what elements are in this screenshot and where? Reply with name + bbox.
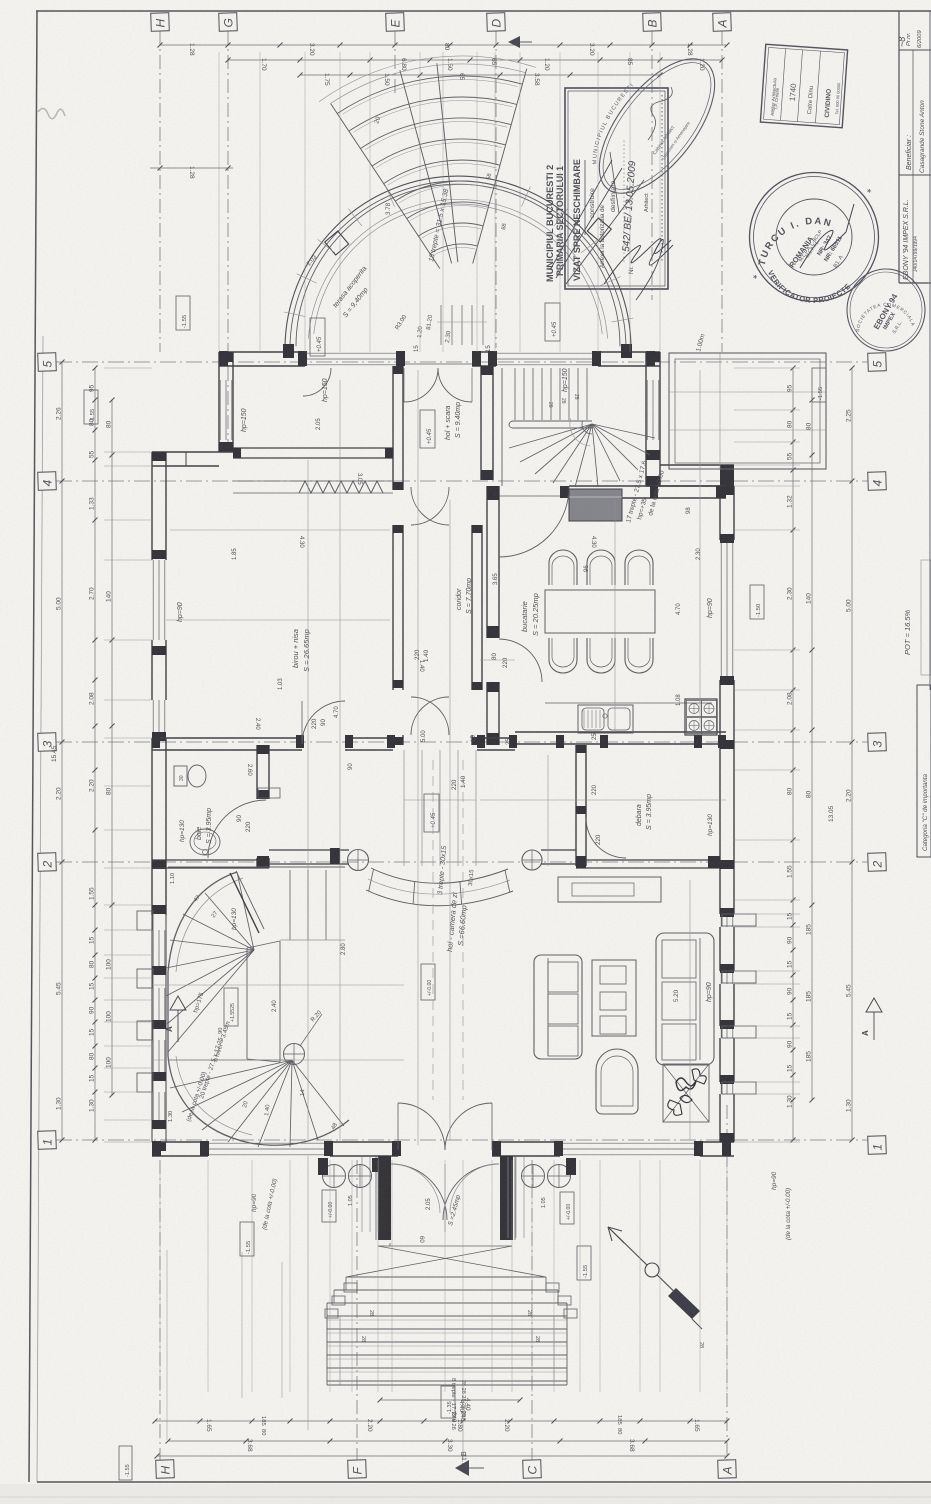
axis marker C bottom: [523, 1460, 542, 1479]
label hp=90 porch right: [771, 1171, 792, 1240]
dimension chain left mid: [89, 366, 98, 1143]
spiral stair labels: [168, 873, 339, 1131]
door coridor upper double: [411, 487, 449, 662]
axis marker A bottom: [718, 1460, 737, 1479]
sheet bottom paper edge: [0, 1496, 931, 1498]
stamp signature scribble: [604, 238, 673, 300]
axis marker 3 left: [38, 733, 57, 752]
spiral stair left: [166, 867, 349, 1147]
axis marker F bottom: [348, 1460, 367, 1479]
axis marker A top: [713, 13, 732, 32]
door coridor lower double: [411, 697, 467, 790]
step columns circles: [348, 850, 369, 871]
dimension chain right inner: [787, 366, 796, 1143]
section marker A left: [165, 996, 186, 1042]
exterior right wall: [720, 486, 734, 1142]
axis marker D top: [487, 13, 506, 32]
dining chairs bottom row: [549, 638, 653, 673]
axis marker 1 right: [868, 1136, 887, 1155]
exterior left step wall: [152, 452, 233, 466]
svg-text:1.05: 1.05: [541, 1197, 547, 1208]
dim line below plan left: [307, 1156, 309, 1430]
terasa acoperita label: [332, 265, 370, 319]
left wall window sills: [137, 911, 153, 1092]
pot box faint: [921, 560, 931, 675]
axis marker 5 left: [38, 353, 57, 372]
witness extension lines top: [219, 52, 660, 352]
sofa large: [656, 933, 714, 1065]
axis marker 2 right: [868, 853, 887, 872]
right edge title line: [929, 11, 931, 690]
interior wall between birou and coridor: [393, 366, 403, 745]
grid axis vertical dash lines: [160, 31, 727, 1460]
exterior left wall: [152, 452, 166, 1151]
axis marker 5 right: [868, 353, 887, 372]
section marker A right: [861, 998, 882, 1040]
dimension chain bottom row3 total: [155, 1454, 730, 1471]
label coridor: [456, 578, 473, 614]
terrace pillar right: [587, 218, 611, 242]
exterior right upper wall: [646, 352, 660, 486]
baie walls: [152, 745, 280, 868]
sheet frame top line: [36, 10, 931, 12]
title block texts: [897, 29, 926, 280]
porch side wall right: [500, 1156, 515, 1240]
boxed label -1.55: [240, 1222, 254, 1256]
exterior top wall: [219, 351, 660, 366]
baie toilet: [174, 765, 206, 787]
main entrance double door: [398, 1103, 492, 1150]
fan stair labels: [373, 115, 508, 343]
porch columns right pair: [522, 1158, 577, 1188]
title block border: [899, 11, 931, 283]
axis marker 4 right: [868, 472, 887, 491]
kitchen stove: [685, 699, 717, 735]
pencil squiggle top-left: [38, 108, 65, 118]
label hp=90 bottom-left + cota: [251, 1178, 279, 1230]
stamp oval municipiul: [578, 40, 736, 213]
door debara: [586, 818, 626, 858]
dimension chain bottom row entrance: [378, 1398, 523, 1422]
section marker B bottom: [455, 1451, 484, 1476]
arc radius labels: [306, 254, 434, 338]
kitchen counter dark cabinet: [569, 489, 622, 521]
stair winder treads: [509, 424, 592, 448]
north arrow: [608, 1227, 702, 1329]
axis marker G top: [219, 13, 238, 32]
label boie: [179, 808, 213, 844]
boxed label -1.50: [750, 585, 764, 619]
sofa small: [534, 955, 582, 1059]
baie washbasin: [190, 829, 220, 855]
dim segment top-left 1.28: [150, 166, 233, 180]
boxed +0.45 right terrace: [545, 303, 560, 341]
entrance landing cross: [346, 1243, 546, 1277]
plant box: [663, 1064, 709, 1122]
curved 3 steps living: [269, 848, 576, 906]
wall under hp150 room with insulation: [233, 448, 393, 493]
stamp round EBONY 94: [847, 269, 925, 351]
boxed label -1.55: [176, 296, 190, 330]
kitchen sink: [545, 703, 712, 733]
door kitchen lower left: [491, 639, 542, 682]
boxed +/-0.00 porch left: [322, 1190, 336, 1222]
porch flank lines right: [508, 1157, 524, 1238]
armchair: [596, 1049, 638, 1114]
witness extension lines right: [734, 368, 800, 1142]
fan apex door landing lines: [437, 305, 487, 345]
stair 17 trepte top right: [502, 368, 655, 487]
right side terrace: [669, 353, 826, 469]
terrace arc radial ticks: [284, 186, 633, 322]
label debara: [636, 794, 714, 836]
label hol+scara: [445, 402, 462, 440]
stamp round TURCU I DAN: [750, 173, 879, 306]
boxed label -1.55: [812, 368, 826, 402]
bottom-left vertical guide lines: [167, 1250, 282, 1440]
dining chairs top row: [549, 550, 653, 585]
porch side wall left: [376, 1156, 391, 1240]
grid axis horizontal dash lines: [56, 362, 868, 1140]
interior wall coridor right: [472, 366, 493, 745]
kitchen top wall: [499, 486, 726, 498]
stamp strike lines: [550, 160, 612, 270]
stamp rect MUNICIPIUL BUCURESTI: [545, 88, 668, 289]
boxed +0.45 hol scara: [420, 410, 435, 448]
terrace pillar left: [325, 231, 349, 255]
axis line below porch to B marker: [462, 1385, 464, 1460]
sheet frame left inner line: [37, 336, 43, 1482]
porch columns left pair: [318, 1158, 378, 1188]
stamp small rect top-right: [760, 44, 847, 128]
witness extension lines bottom: [160, 1160, 727, 1392]
scan noise overlay: [0, 0, 1, 1]
axis marker 3 right: [868, 733, 887, 752]
sheet frame bottom line: [37, 1481, 931, 1483]
door french top terrace: [404, 368, 472, 402]
boxed +/-0.00 porch right: [560, 1192, 574, 1224]
door top-left room: [303, 368, 331, 396]
dimension chain right outer: [846, 366, 855, 1143]
living sideboard: [558, 877, 661, 902]
axis marker 1 left: [38, 1131, 57, 1150]
terrace arcs: [285, 176, 631, 349]
interior guide lines: [152, 370, 726, 1145]
porch flank lines left: [362, 1157, 378, 1232]
dimension chain left outer: [51, 360, 65, 1143]
label bucatarie: [520, 593, 540, 636]
entrance steps: [325, 1277, 704, 1430]
boxed -1.55 bottom left corner: [119, 1446, 132, 1480]
boxed label +/-0.00 living: [421, 964, 435, 1000]
dimension chain right mid: [806, 398, 836, 1103]
faint scan smudge band bottom: [0, 1484, 931, 1504]
door baie: [208, 800, 266, 858]
boxed label +1.5525: [224, 988, 238, 1026]
debara walls: [576, 745, 720, 868]
axis marker H bottom: [156, 1460, 175, 1479]
categoria box: [917, 685, 931, 857]
axis marker H top: [151, 13, 170, 32]
stair handrail: [513, 420, 592, 422]
witness extension lines left: [104, 368, 152, 1142]
wall stub right of steps: [541, 849, 576, 851]
door birou (middle wall): [302, 701, 345, 744]
axis marker B top: [643, 13, 662, 32]
axis marker 4 left: [38, 472, 57, 491]
boxed +0.45 left terrace: [310, 318, 325, 356]
boxed -1.35 entrance: [441, 1386, 455, 1418]
exterior bottom wall: [152, 1141, 734, 1156]
sheet frame left line: [29, 11, 37, 1482]
dimension chain top row1: [158, 43, 730, 57]
dimension chain top row2: [226, 58, 725, 72]
porch windbreak doors: [391, 1164, 499, 1243]
terrace arc end piers: [283, 344, 294, 358]
landing edge lines below corridor: [404, 750, 476, 866]
axis marker 2 left: [38, 853, 57, 872]
kitchen left wall: [487, 486, 499, 745]
dining table: [545, 590, 655, 633]
interior dimension labels: [232, 345, 702, 955]
exterior right step wall: [646, 465, 734, 486]
dimension chain top row3: [298, 73, 663, 87]
dimension chain bottom row2: [166, 1439, 730, 1453]
section marker B top: [508, 36, 532, 48]
axis marker E top: [386, 13, 405, 32]
boxed label -1.55: [577, 1246, 591, 1280]
wall stub left of steps: [269, 849, 349, 851]
label birou: [291, 629, 311, 672]
boxed label -1.55: [84, 390, 98, 424]
middle horizontal wall: [152, 732, 726, 750]
dimension chain left inner: [106, 398, 115, 1098]
stair labels 17 trepte: [625, 333, 706, 523]
svg-text:1.05: 1.05: [348, 1195, 354, 1206]
dimension chain bottom row1: [153, 1415, 730, 1435]
right wall window sills: [722, 914, 756, 1094]
coffee table: [592, 960, 636, 1036]
door kitchen from corridor (top): [499, 487, 569, 557]
boxed +0.45 living: [424, 794, 439, 832]
label living: [437, 846, 469, 953]
fan staircase 18 trepte: [319, 56, 536, 269]
exterior left upper wall: [219, 352, 233, 452]
